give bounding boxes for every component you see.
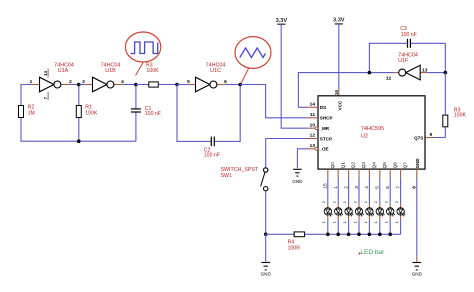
pin 1 label LED D1 — [322, 221, 326, 223]
pin 14 stub DS — [308, 106, 319, 108]
svg-text:VCC: VCC — [337, 100, 342, 110]
svg-text:Q2: Q2 — [351, 162, 356, 169]
pin 12 — [386, 75, 392, 81]
label GND (OE) — [292, 179, 303, 184]
label Q5 inside U2 — [382, 162, 387, 169]
svg-text:2: 2 — [374, 201, 378, 203]
svg-text:1: 1 — [395, 221, 399, 223]
LED D4 — [355, 204, 364, 221]
svg-text:1: 1 — [385, 221, 389, 223]
pin 6 label — [385, 186, 391, 189]
inverter U1A — [31, 68, 79, 99]
wire Q5 to LED — [379, 177, 381, 203]
pin 1 label LED D5 — [364, 221, 368, 223]
wire LED to bus — [327, 220, 329, 234]
node pin5 junction — [175, 83, 179, 87]
resistor R3 (series) — [136, 82, 177, 87]
junction bus Q0 — [326, 233, 330, 237]
label Q1 inside U2 — [340, 162, 345, 169]
pin 2 label LED D7 — [385, 201, 389, 203]
pin 1 label LED D7 — [385, 221, 389, 223]
svg-text:U2: U2 — [361, 133, 368, 139]
pin 4 stub Q4 — [368, 169, 370, 177]
pin 14 U1A — [43, 70, 48, 75]
LED D8 — [397, 204, 406, 221]
power 3.3V (right) — [333, 18, 345, 24]
pin 2 stub Q2 — [348, 169, 350, 177]
junction bus Q2 — [347, 233, 351, 237]
svg-text:6: 6 — [224, 79, 227, 85]
pin 1 label LED D8 — [395, 221, 399, 223]
junction bus Q1 — [336, 233, 340, 237]
svg-text:LED bar: LED bar — [360, 249, 385, 256]
svg-text:1: 1 — [322, 221, 326, 223]
svg-text:1M: 1M — [28, 110, 35, 116]
svg-text:2: 2 — [364, 201, 368, 203]
pin 1 label — [333, 186, 339, 189]
svg-text:13: 13 — [310, 143, 316, 149]
label C1 100 nF — [145, 106, 161, 117]
ground (OE) — [293, 169, 302, 176]
pin 15 label — [323, 183, 329, 189]
pin 2 label LED D3 — [343, 201, 347, 203]
pin 1 label LED D2 — [333, 221, 337, 223]
wire R1 leg — [78, 85, 80, 142]
svg-text:4: 4 — [121, 79, 124, 85]
svg-text:16: 16 — [334, 90, 339, 95]
pin 16 label — [334, 90, 339, 95]
capacitor C2 — [211, 137, 214, 147]
capacitor C1 — [131, 109, 141, 112]
LED D6 — [376, 204, 385, 221]
svg-text:13: 13 — [422, 67, 428, 73]
wire to ground (switch) — [265, 234, 267, 262]
svg-text:5: 5 — [187, 79, 190, 85]
pin 9 label — [429, 132, 432, 138]
svg-text:2: 2 — [322, 201, 326, 203]
svg-text:2: 2 — [385, 201, 389, 203]
inverter U1B — [79, 77, 136, 92]
svg-text:GND: GND — [415, 158, 420, 169]
wire Q7 to LED — [400, 177, 402, 203]
node square-wave junction — [134, 83, 138, 87]
pin 5 label — [375, 186, 381, 189]
label 74HC04 U1B — [101, 63, 121, 74]
pin 2 label LED D6 — [374, 201, 378, 203]
svg-text:1: 1 — [343, 221, 347, 223]
svg-text:100K: 100K — [454, 112, 467, 118]
wire bus left + R4 — [266, 233, 401, 235]
label Q6 inside U2 — [392, 162, 397, 169]
inverter U1C — [177, 77, 240, 92]
svg-text:GND: GND — [292, 179, 303, 184]
wire LED to bus — [337, 220, 339, 234]
node U1F input junction — [444, 71, 448, 75]
pin 7 U1A — [43, 96, 48, 99]
svg-text:STCP: STCP — [320, 136, 332, 141]
label Q0 inside U2 — [330, 162, 335, 169]
svg-text:Q5: Q5 — [382, 162, 387, 169]
pin labels inside U2 — [318, 105, 423, 152]
pin 2 label — [343, 186, 349, 189]
wire STCP net — [266, 139, 308, 168]
wire LED to bus — [358, 220, 360, 234]
wire switch to bus — [265, 191, 267, 234]
switch SW1 — [261, 168, 268, 191]
svg-text:3.3V: 3.3V — [333, 18, 345, 24]
label 74HC04 U1A — [54, 63, 74, 74]
svg-text:2: 2 — [69, 79, 72, 85]
svg-text:100R: 100R — [288, 246, 301, 252]
pin 8 label — [412, 186, 418, 189]
svg-text:74HC595: 74HC595 — [361, 126, 384, 132]
pin 1 label LED D6 — [374, 221, 378, 223]
svg-text:C3: C3 — [400, 26, 407, 32]
label GND pin inside U2 — [415, 158, 420, 169]
svg-text:100K: 100K — [85, 110, 98, 116]
svg-text:Q7S: Q7S — [414, 135, 423, 140]
svg-text:100 nF: 100 nF — [204, 152, 220, 158]
svg-text:U1B: U1B — [105, 68, 116, 74]
pin 2 label LED D2 — [333, 201, 337, 203]
resistor R2 — [19, 106, 24, 118]
label VCC inside U2 — [337, 100, 342, 110]
svg-text:11: 11 — [310, 112, 315, 118]
pin 16 stub VCC — [338, 89, 340, 96]
callout square wave icon — [125, 32, 160, 76]
svg-text:DS: DS — [320, 105, 326, 110]
svg-text:R4: R4 — [288, 240, 295, 246]
svg-text:2: 2 — [395, 201, 399, 203]
label SWITCH_SPST SW1 — [221, 167, 259, 179]
wire LED to bus — [389, 220, 391, 234]
label Q7 inside U2 — [403, 162, 408, 169]
svg-text:14: 14 — [43, 70, 48, 75]
label R3 100K (right) — [454, 108, 467, 119]
pin 2 label LED D5 — [364, 201, 368, 203]
svg-text:SW1: SW1 — [221, 173, 233, 179]
svg-text:Q6: Q6 — [392, 162, 397, 169]
svg-text:_MR: _MR — [318, 126, 329, 131]
ground (switch) — [261, 263, 270, 270]
pin 13 stub OE — [308, 147, 318, 150]
pin 1 stub Q1 — [337, 169, 339, 177]
svg-text:Q0: Q0 — [330, 162, 335, 169]
LED D5 — [366, 204, 375, 221]
capacitor C3 wiring — [369, 43, 445, 72]
label R3 100K — [146, 63, 159, 74]
svg-text:U1A: U1A — [58, 68, 69, 74]
label 74HC04 U1F — [398, 52, 418, 64]
wire VCC net — [338, 24, 340, 89]
junction bus Q4 — [368, 233, 372, 237]
svg-text:2: 2 — [353, 201, 357, 203]
svg-text:1: 1 — [364, 221, 368, 223]
pin 2 label LED D4 — [353, 201, 357, 203]
label GND (switch) — [261, 271, 272, 276]
wire Q2 to LED — [348, 177, 350, 203]
svg-text:Q7: Q7 — [403, 162, 408, 169]
svg-text:14: 14 — [310, 102, 316, 108]
junction bus Q5 — [378, 233, 382, 237]
pin 3 label — [354, 186, 360, 189]
svg-text:SHCP: SHCP — [320, 116, 333, 121]
svg-text:Q4: Q4 — [372, 162, 377, 169]
junction bus Q3 — [357, 233, 361, 237]
svg-text:8: 8 — [412, 186, 418, 189]
wire LED to bus — [400, 220, 402, 234]
wire Q4 to LED — [368, 177, 370, 203]
wire Q0 to LED — [327, 177, 329, 203]
pin 3 — [82, 79, 85, 85]
LED D1 — [324, 204, 333, 221]
label C3 100 nF — [400, 26, 417, 38]
svg-text:9: 9 — [429, 132, 432, 138]
pin numbers left side U2 — [310, 102, 316, 150]
pin 5 — [187, 79, 190, 85]
wire gnd lead — [416, 256, 418, 262]
label 74HC595 U2 — [361, 126, 384, 139]
wire LED to bus — [379, 220, 381, 234]
pin 5 stub Q5 — [379, 169, 381, 177]
svg-text:U1F: U1F — [398, 58, 409, 64]
wire R3 right leg — [434, 73, 445, 138]
pin 6 stub Q6 — [389, 169, 391, 177]
wire Q1 to LED — [337, 177, 339, 203]
junction switch/bus — [264, 233, 268, 237]
svg-text:100K: 100K — [147, 68, 160, 74]
label LED bar — [358, 249, 385, 256]
label GND (right) — [412, 271, 423, 276]
junction bus Q6 — [388, 233, 392, 237]
node U1C output junction — [238, 83, 242, 87]
svg-text:Q3: Q3 — [361, 162, 366, 169]
svg-text:_OE: _OE — [318, 147, 328, 152]
pin 9 stub — [425, 137, 434, 139]
label C2 100 nF — [204, 147, 220, 158]
pin 10 stub MR — [308, 127, 318, 130]
pin 1 label LED D3 — [343, 221, 347, 223]
node U1F output junction — [368, 71, 372, 75]
svg-text:GND: GND — [261, 271, 272, 276]
svg-text:12: 12 — [310, 133, 316, 139]
pin 2 — [69, 79, 72, 85]
pin 11 stub SHCP — [308, 117, 319, 119]
pin 6 — [224, 79, 227, 85]
inverter U1F (mirrored) — [369, 65, 445, 80]
pin 7 label — [395, 186, 401, 189]
svg-text:1: 1 — [333, 221, 337, 223]
wire C1 leg — [135, 85, 137, 142]
svg-text:1: 1 — [353, 221, 357, 223]
svg-text:10: 10 — [310, 122, 316, 128]
wire LED to bus — [348, 220, 350, 234]
resistor R4 — [294, 232, 305, 237]
ground (right) — [413, 263, 422, 270]
pin 13 — [422, 67, 428, 73]
pin 8 stub — [416, 169, 418, 177]
svg-text:100 nF: 100 nF — [401, 32, 417, 38]
pin 1 label LED D4 — [353, 221, 357, 223]
LED D7 — [387, 204, 396, 221]
pin 2 label LED D1 — [322, 201, 326, 203]
svg-text:100 nF: 100 nF — [145, 111, 161, 117]
svg-text:U1C: U1C — [210, 68, 221, 74]
label R2 1M — [28, 105, 35, 117]
pin 12 stub STCP — [308, 138, 319, 140]
svg-text:3.3V: 3.3V — [276, 18, 288, 24]
pin 2 label LED D8 — [395, 201, 399, 203]
label Q3 inside U2 — [361, 162, 366, 169]
resistor R3 (right) — [443, 115, 448, 127]
wire OE net — [297, 149, 307, 169]
wire MR net — [281, 24, 307, 128]
wire Q3 to LED — [358, 177, 360, 203]
wire Q6 to LED — [389, 177, 391, 203]
svg-text:GND: GND — [412, 271, 423, 276]
wire net pin1 left loop — [21, 85, 136, 142]
svg-text:2: 2 — [343, 201, 347, 203]
pin 15 stub Q0 — [327, 169, 329, 177]
label R4 100R — [288, 240, 301, 252]
label Q4 inside U2 — [372, 162, 377, 169]
node pin2/3 junction — [77, 83, 81, 87]
junction R1 bottom — [77, 139, 81, 143]
capacitor C3 — [408, 39, 411, 48]
wire DS net — [298, 73, 369, 108]
power 3.3V (left) — [276, 18, 288, 24]
svg-text:2: 2 — [333, 201, 337, 203]
pin 1 — [30, 79, 33, 85]
pin 3 stub Q3 — [358, 169, 360, 177]
svg-text:1: 1 — [30, 79, 33, 85]
wire GND pin8 leg — [416, 177, 418, 256]
callout triangle wave icon — [235, 37, 271, 83]
pin 4 label — [364, 186, 370, 189]
pin 7 stub Q7 — [400, 169, 402, 177]
svg-text:1: 1 — [374, 221, 378, 223]
label 74HC04 U1C — [206, 63, 226, 74]
svg-text:Q1: Q1 — [340, 162, 345, 169]
label Q2 inside U2 — [351, 162, 356, 169]
wire C2 loop — [177, 85, 240, 142]
svg-text:12: 12 — [386, 75, 392, 81]
LED D3 — [345, 204, 354, 221]
IC U2 74HC595 — [318, 96, 425, 169]
LED D2 — [335, 204, 344, 221]
pin 4 — [121, 79, 124, 85]
wire SHCP net — [240, 85, 307, 118]
wire LED to bus — [368, 220, 370, 234]
label R1 100K — [85, 105, 98, 117]
resistor R1 — [76, 106, 81, 118]
